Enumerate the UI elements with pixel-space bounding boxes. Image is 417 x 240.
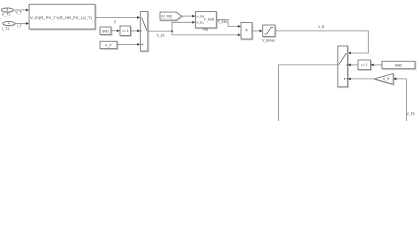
inport 3 (V_T1) [1, 8, 13, 17]
svg-text:V_T1: V_T1 [2, 13, 11, 17]
svg-text:V_Bmax: V_Bmax [262, 38, 275, 42]
wire I_T [15, 22, 29, 28]
constant K_P [100, 41, 118, 49]
wire K_P to switch A bottom input [117, 43, 140, 46]
subsystem expression block [29, 4, 96, 30]
svg-text:== 1: == 1 [361, 63, 368, 67]
svg-text:I_T: I_T [17, 24, 23, 28]
svg-text:y: y [114, 19, 116, 23]
wire junction to Fas lower input [172, 21, 195, 31]
wire V_FE (from below into gain) [393, 78, 415, 121]
svg-text:V_E/(R_PV_T+(R_HR_PX_L)I_T): V_E/(R_PV_T+(R_HR_PX_L)I_T) [30, 16, 92, 20]
from tag [V_FB] [160, 12, 182, 21]
svg-text:V_E1: V_E1 [196, 21, 204, 25]
svg-text:SW2: SW2 [395, 64, 402, 68]
svg-text:V_E1: V_E1 [157, 33, 165, 37]
wire SW1 to compare A [111, 29, 120, 32]
relational operator == 1 (A) [120, 26, 131, 36]
wire compare A to switch A control [131, 30, 141, 33]
svg-text:F_EM: F_EM [218, 20, 227, 24]
inport 4 (I_T1) [2, 21, 15, 31]
svg-text:V_B: V_B [318, 25, 325, 29]
wire SW2 to compare B [371, 64, 383, 67]
product block [241, 23, 253, 40]
wire switch B output (down to bottom edge) [279, 65, 338, 121]
svg-text:3: 3 [6, 8, 8, 12]
svg-text:V_FB: V_FB [196, 14, 204, 18]
svg-text:SW1: SW1 [102, 30, 109, 34]
gain K_R (mirrored triangle) [374, 74, 394, 86]
saturation V_Bmax [262, 25, 276, 42]
switch B (mirrored) [338, 46, 349, 88]
svg-text:V_T: V_T [15, 10, 22, 14]
svg-text:Fas: Fas [203, 28, 209, 32]
wire junction to product lower input [172, 31, 241, 36]
constant SW1 [100, 27, 112, 35]
svg-text:V_FE: V_FE [407, 112, 415, 116]
svg-text:[V_FB]: [V_FB] [162, 15, 172, 19]
wire V_B (saturation to switch B top input, loop) [275, 25, 368, 55]
svg-text:K_R: K_R [383, 77, 390, 81]
svg-text:×: × [245, 28, 248, 34]
svg-text:I_T1: I_T1 [2, 27, 9, 31]
wire from tag to Fas upper input [182, 15, 196, 18]
wire gain to switch B bottom input [348, 78, 375, 81]
wire y (subsystem to switch A top input) [95, 16, 140, 23]
svg-text:F_EM1: F_EM1 [204, 18, 215, 22]
svg-text:K_P: K_P [105, 44, 112, 48]
constant SW2 [382, 61, 416, 69]
wire switch A output to junction [148, 31, 172, 37]
svg-text:4: 4 [8, 22, 10, 26]
junction node [171, 30, 173, 32]
wire compare B to switch B control [348, 64, 358, 67]
wire product to saturation [252, 30, 263, 33]
subsystem Fas [195, 12, 217, 32]
wire V_T [13, 9, 29, 15]
switch A [140, 12, 148, 52]
svg-text:== 1: == 1 [122, 29, 129, 33]
relational operator == 1 (B) [358, 60, 371, 71]
wire F_EM (Fas output to product upper input) [216, 20, 241, 28]
